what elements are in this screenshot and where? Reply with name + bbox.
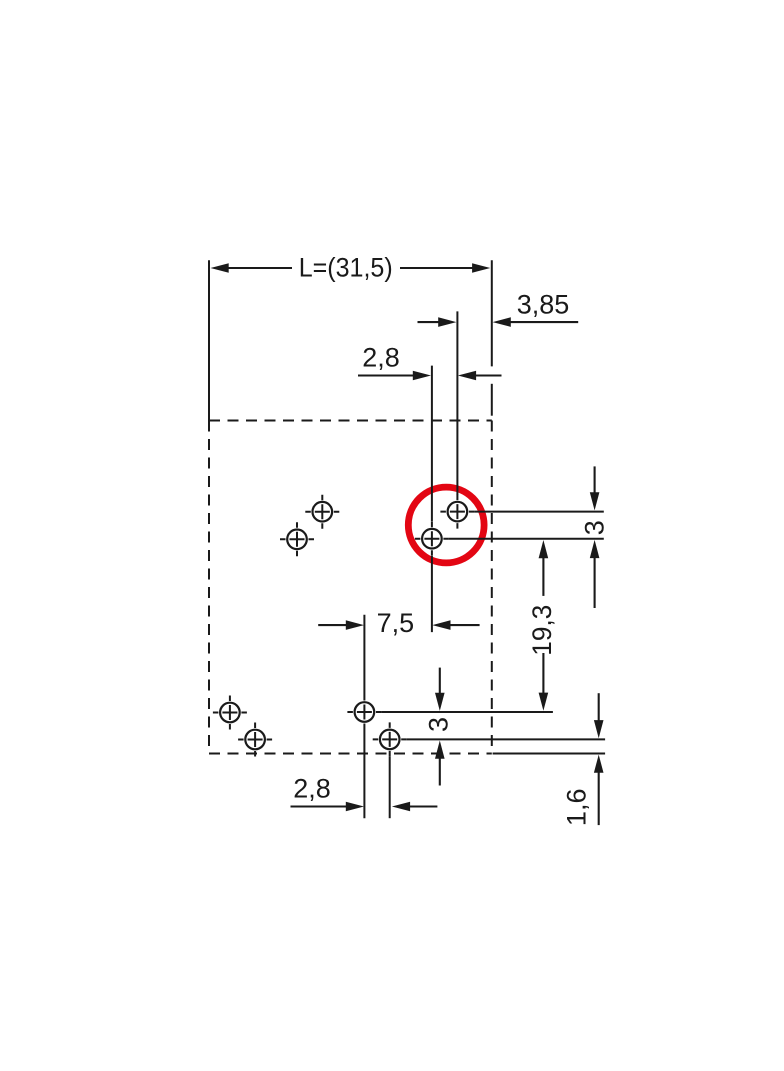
svg-text:3,85: 3,85 (517, 289, 570, 319)
svg-text:1,6: 1,6 (561, 789, 591, 827)
dimension 2,8 (bottom) (291, 729, 438, 818)
hole G (213, 696, 247, 730)
dimension 3 (bottom, between hole E and F lines) (424, 668, 454, 786)
reference line from hole C (474, 511, 603, 513)
reference line from hole F (407, 738, 605, 740)
svg-text:3: 3 (424, 717, 454, 732)
hole E (347, 695, 381, 729)
dimension 1,6 (561, 693, 603, 826)
svg-text:7,5: 7,5 (377, 608, 415, 638)
svg-text:L=(31,5): L=(31,5) (299, 252, 393, 282)
hole B (280, 522, 314, 556)
hole C (440, 495, 474, 529)
dimension 19,3 (527, 540, 557, 711)
reference line from hole E (381, 711, 553, 713)
dimension 2,8 (top) (358, 342, 502, 521)
svg-text:2,8: 2,8 (362, 342, 400, 372)
hole A (305, 495, 339, 529)
svg-text:2,8: 2,8 (293, 773, 331, 803)
dimension 7,5 (318, 556, 479, 695)
red highlight circle (408, 487, 484, 563)
svg-text:19,3: 19,3 (527, 605, 557, 656)
reference line from hole D (449, 538, 604, 540)
dimension 3,85 (418, 289, 579, 495)
hole H (238, 723, 272, 757)
bottom edge extension line (493, 753, 605, 755)
dimension L=(31,5) (209, 252, 492, 420)
hole D (415, 522, 449, 556)
dimension 3 (right top, between hole C and D lines) (579, 466, 609, 608)
svg-text:3: 3 (579, 520, 609, 535)
dashed outline of terminal block footprint (209, 421, 492, 754)
hole F (373, 722, 407, 756)
